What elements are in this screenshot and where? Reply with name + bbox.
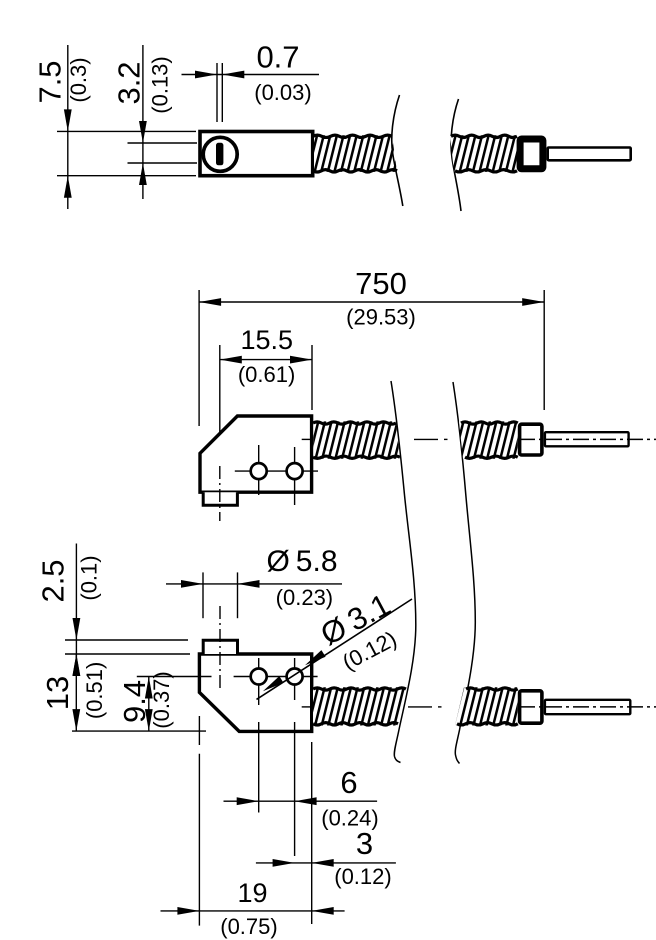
fiber tip tube (top fig) xyxy=(548,148,631,161)
flex conduit (middle fig, seg 1) top edge xyxy=(313,422,396,424)
ferrule (middle fig) xyxy=(520,424,542,455)
ferrule (top fig) xyxy=(520,139,543,169)
dim 2.5 ext line bottom xyxy=(65,653,190,655)
dim 5.8 ext line left xyxy=(202,572,204,618)
break curve A xyxy=(392,95,403,206)
slot extension line right xyxy=(221,63,223,122)
fiber tip tab (middle fig) xyxy=(203,492,237,505)
fiber line lower xyxy=(128,162,198,164)
dim 2.5 ext line top xyxy=(65,639,188,641)
flex conduit (middle fig, seg 1) hatch xyxy=(313,421,400,458)
mounting hole 1 (bottom) xyxy=(251,669,267,685)
hole 1 vertical line (bottom) xyxy=(258,658,260,705)
dia 3.1 leader line xyxy=(257,599,413,699)
svg-text:3: 3 xyxy=(356,826,373,861)
axis centerline segment c (middle) xyxy=(519,438,656,440)
svg-text:(0.12): (0.12) xyxy=(334,864,391,889)
fiber tip tab (bottom fig) xyxy=(203,640,237,654)
flex conduit (top fig, seg 1) top edge xyxy=(313,135,392,137)
tab centerline (bottom) xyxy=(219,606,221,692)
hole 1 vertical centerline (middle) xyxy=(258,445,260,495)
dim 15.5 ext line right xyxy=(311,345,313,410)
fiber line upper xyxy=(128,142,198,144)
svg-text:9.4: 9.4 xyxy=(117,680,152,723)
dim 5.8 line xyxy=(166,583,342,585)
hole 2 ext to dim 3 xyxy=(294,722,296,856)
flex conduit (bottom fig, seg 2) bottom edge xyxy=(457,723,518,725)
hole 1 ext to dim 6 xyxy=(258,722,260,813)
svg-text:7.5: 7.5 xyxy=(33,60,68,103)
svg-text:(0.13): (0.13) xyxy=(148,56,173,113)
flex conduit (middle fig, seg 2) top edge xyxy=(461,422,518,424)
svg-text:3.2: 3.2 xyxy=(112,61,147,104)
fiber tip tube (middle fig) xyxy=(545,432,629,446)
svg-text:Ø 5.8: Ø 5.8 xyxy=(266,545,337,578)
flex conduit (middle fig, seg 1) bottom edge xyxy=(313,456,400,458)
svg-text:(0.1): (0.1) xyxy=(77,555,102,600)
mounting hole 1 (middle) xyxy=(251,463,267,479)
flex conduit (middle fig, seg 2) bottom edge xyxy=(465,456,518,458)
head right edge ext to dims xyxy=(311,742,313,924)
dim 2.5 line xyxy=(75,544,77,672)
dim 7.5 extension line bottom xyxy=(57,175,196,177)
head left edge ext to dim 19 xyxy=(198,754,200,926)
dim 3 line xyxy=(256,862,396,864)
right-angle head body (bottom fig) xyxy=(199,654,311,731)
svg-text:0.7: 0.7 xyxy=(256,40,299,75)
lens bezel circle xyxy=(203,137,237,171)
flex conduit (bottom fig, seg 1) bottom edge xyxy=(313,723,398,725)
dim 750 ext line right xyxy=(543,290,545,410)
head corner cross vertical xyxy=(198,716,200,745)
mounting hole 2 (bottom) xyxy=(287,669,303,685)
svg-text:2.5: 2.5 xyxy=(36,559,71,602)
mounting hole 2 (middle) xyxy=(287,463,303,479)
svg-text:(0.51): (0.51) xyxy=(82,662,107,719)
hole crosshair horizontal (middle) xyxy=(235,470,318,472)
fiber tip tube (bottom fig) xyxy=(545,700,630,714)
hole 2 vertical line (bottom) xyxy=(294,658,296,700)
flex conduit (top fig, seg 2) top edge xyxy=(451,135,517,137)
fiber slot aperture xyxy=(216,143,223,166)
dim 750 ext line left xyxy=(198,290,200,426)
dim 5.8 ext line right xyxy=(237,572,239,618)
axis centerline segment b (bottom) xyxy=(408,706,432,708)
break curve B xyxy=(451,99,461,211)
dim 19 line xyxy=(161,910,345,912)
dim 15.5 ext line left xyxy=(219,345,221,444)
svg-text:(0.23): (0.23) xyxy=(276,585,333,610)
long break curve 1 xyxy=(391,381,416,763)
svg-text:750: 750 xyxy=(355,266,407,301)
svg-text:(0.03): (0.03) xyxy=(254,80,311,105)
dim 7.5 line xyxy=(67,45,69,209)
flex conduit (middle fig, seg 2) hatch xyxy=(459,421,518,458)
axis centerline segment a (middle) xyxy=(302,438,313,440)
flex conduit (bottom fig, seg 1) hatch xyxy=(313,687,406,725)
svg-text:(0.3): (0.3) xyxy=(66,57,91,102)
dim 13 line xyxy=(75,654,77,731)
long break curve 2 xyxy=(453,382,475,764)
ferrule (bottom fig) xyxy=(520,691,542,723)
svg-text:19: 19 xyxy=(237,878,267,908)
axis centerline segment c (bottom) xyxy=(519,706,656,708)
dim 7.5 extension line top xyxy=(57,130,196,132)
svg-text:15.5: 15.5 xyxy=(241,325,294,355)
svg-text:(29.53): (29.53) xyxy=(346,305,416,330)
hole crosshair horizontal (bottom) xyxy=(234,676,318,678)
dim 750 line xyxy=(199,301,544,303)
dim 15.5 line xyxy=(220,359,312,361)
flex conduit (top fig, seg 1) bottom edge xyxy=(313,170,397,172)
flex conduit (top fig, seg 2) bottom edge xyxy=(455,170,517,172)
flex conduit (top fig, seg 2) hatch xyxy=(450,135,517,172)
dim 6 line xyxy=(224,800,378,802)
right-angle head body (middle fig) xyxy=(200,416,312,492)
flex conduit (bottom fig, seg 2) top edge xyxy=(466,688,518,690)
dim 9.4 ext line (hole axis) xyxy=(137,676,212,678)
svg-text:(0.61): (0.61) xyxy=(238,362,295,387)
flex conduit (bottom fig, seg 2) hatch xyxy=(455,687,518,725)
axis centerline segment b (middle) xyxy=(414,438,438,440)
dim 13 ext line bottom xyxy=(72,730,206,732)
hole 2 vertical centerline (middle) xyxy=(294,447,296,505)
flex conduit (top fig, seg 1) hatch xyxy=(314,135,397,172)
flex conduit (bottom fig, seg 1) top edge xyxy=(313,688,406,690)
tab centerline (middle) xyxy=(219,466,221,521)
axis centerline segment a (bottom) xyxy=(302,706,312,708)
svg-text:13: 13 xyxy=(40,676,75,710)
svg-text:6: 6 xyxy=(340,765,357,800)
sensor head body (top view) xyxy=(200,132,313,176)
dim 0.7 line xyxy=(182,74,320,76)
dim 9.4 line xyxy=(148,677,150,732)
svg-text:(0.37): (0.37) xyxy=(149,671,174,728)
svg-text:(0.75): (0.75) xyxy=(220,914,277,939)
dim 3.2 line xyxy=(142,45,144,199)
slot extension line left xyxy=(216,63,218,122)
